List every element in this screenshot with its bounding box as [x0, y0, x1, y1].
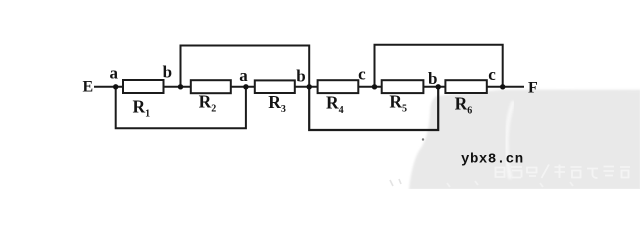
svg-text:b: b: [428, 69, 437, 88]
node b after R1 junction: [163, 63, 184, 90]
wire main E-F horizontal line: [94, 86, 524, 88]
wire top bypass c-c: [375, 45, 503, 87]
node b after R3 junction: [296, 67, 312, 90]
svg-text:c: c: [358, 64, 366, 83]
resistor R4: [318, 80, 359, 116]
svg-text:b: b: [163, 63, 172, 82]
wire bottom loop a-a: [116, 87, 246, 129]
svg-text:R5: R5: [389, 91, 407, 114]
svg-text:R1: R1: [133, 96, 151, 119]
svg-text:R2: R2: [199, 91, 217, 114]
wire bottom loop b-b: [309, 87, 438, 130]
svg-text:R3: R3: [268, 92, 286, 115]
resistor R1: [123, 80, 164, 120]
svg-text:ybx8.cn: ybx8.cn: [461, 151, 524, 167]
node a left junction: [110, 63, 119, 89]
node c after R4 junction: [358, 64, 377, 89]
svg-text:a: a: [239, 66, 248, 85]
resistor R3: [255, 80, 295, 115]
svg-text:a: a: [110, 63, 119, 82]
resistor R2: [191, 80, 231, 115]
node c after R6 junction: [488, 65, 505, 89]
svg-text:F: F: [528, 79, 538, 96]
resistor R6: [445, 80, 486, 116]
resistor R5: [382, 80, 424, 115]
node b after R5 junction: [428, 69, 441, 89]
svg-text:E: E: [82, 78, 93, 95]
svg-text:c: c: [488, 65, 496, 84]
terminal E: [82, 78, 93, 95]
node a after R2 junction: [239, 66, 248, 90]
wire top bypass b-b: [181, 46, 310, 87]
svg-text:R4: R4: [326, 93, 344, 116]
svg-text:b: b: [296, 67, 305, 86]
terminal F: [528, 79, 538, 96]
